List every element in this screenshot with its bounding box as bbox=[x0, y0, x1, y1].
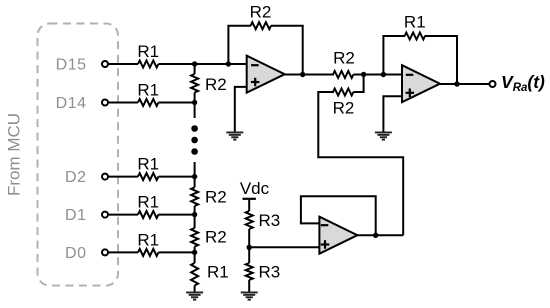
svg-text:From MCU: From MCU bbox=[5, 113, 24, 196]
svg-text:Vdc: Vdc bbox=[240, 179, 270, 198]
svg-text:R1: R1 bbox=[137, 155, 159, 174]
svg-text:R2: R2 bbox=[205, 228, 227, 247]
svg-text:R2: R2 bbox=[205, 188, 227, 207]
svg-text:R1: R1 bbox=[137, 193, 159, 212]
svg-text:R1: R1 bbox=[207, 263, 229, 282]
svg-text:R1: R1 bbox=[137, 42, 159, 61]
svg-text:R1: R1 bbox=[137, 81, 159, 100]
svg-text:D1: D1 bbox=[65, 207, 86, 224]
svg-text:R2: R2 bbox=[250, 3, 272, 22]
svg-text:R3: R3 bbox=[259, 263, 281, 282]
svg-text:D15: D15 bbox=[56, 57, 87, 74]
svg-text:R1: R1 bbox=[137, 230, 159, 249]
svg-text:D0: D0 bbox=[65, 245, 86, 262]
svg-text:D14: D14 bbox=[56, 95, 87, 112]
svg-text:R1: R1 bbox=[404, 13, 426, 32]
svg-text:R2: R2 bbox=[333, 99, 355, 118]
svg-text:R3: R3 bbox=[259, 211, 281, 230]
svg-text:D2: D2 bbox=[65, 169, 86, 186]
svg-text:R2: R2 bbox=[333, 49, 355, 68]
svg-text:R2: R2 bbox=[205, 75, 227, 94]
